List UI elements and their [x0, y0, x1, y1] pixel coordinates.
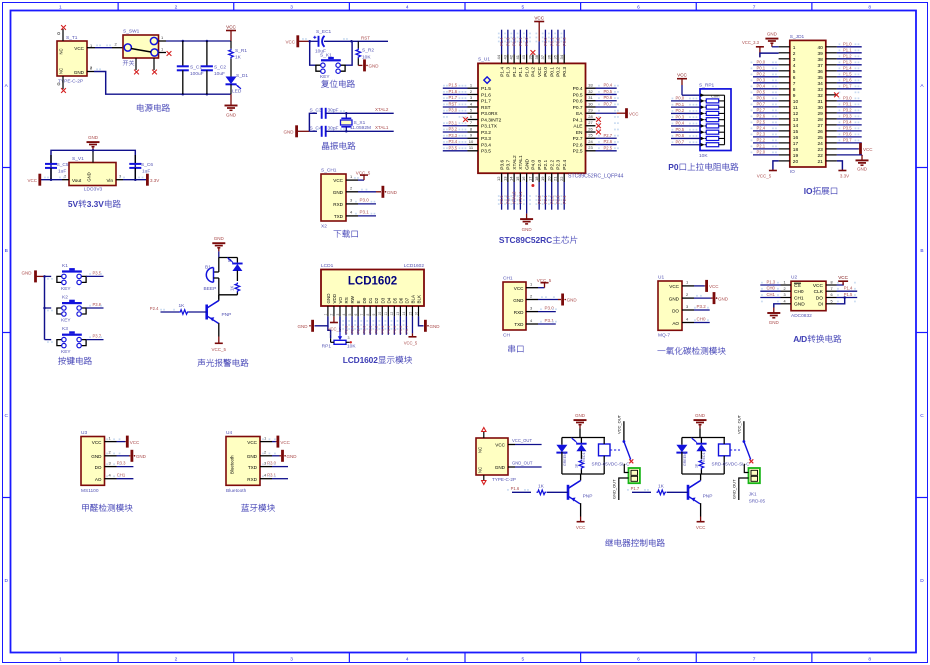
svg-text:PNP: PNP [583, 494, 593, 500]
svg-text:P3.1TX: P3.1TX [481, 124, 498, 130]
IC S_U1 STC89C52RC LQFP44 [468, 54, 624, 182]
svg-text:P1.6: P1.6 [449, 89, 458, 94]
wire P3.5 net [86, 270, 103, 276]
svg-text:18: 18 [793, 147, 799, 153]
svg-text:GREEN1: GREEN1 [563, 451, 567, 466]
svg-text:25: 25 [817, 135, 823, 141]
svg-text:TXD: TXD [334, 214, 344, 219]
caption 继电器控制电路 [605, 539, 664, 547]
svg-text:P2.7: P2.7 [573, 136, 583, 142]
svg-text:D: D [920, 578, 924, 584]
svg-text:2: 2 [793, 51, 796, 57]
svg-text:GND: GND [333, 190, 344, 195]
svg-text:Bluetooth: Bluetooth [226, 488, 247, 494]
svg-text:P2.5: P2.5 [757, 120, 766, 125]
svg-text:P3.0: P3.0 [843, 96, 852, 101]
power port VCC at EA pin [617, 108, 640, 118]
svg-text:XTAL1: XTAL1 [375, 125, 389, 130]
svg-text:CLK: CLK [814, 289, 824, 295]
svg-text:38: 38 [817, 57, 823, 63]
wire relay top rail P1.7 [682, 428, 725, 437]
svg-text:GND: GND [88, 135, 99, 140]
svg-text:VCC: VCC [495, 443, 505, 448]
wire DO P3.2 [694, 304, 710, 310]
svg-text:P0.3: P0.3 [757, 78, 766, 83]
svg-text:7: 7 [793, 81, 796, 87]
LED D2 alarm [227, 258, 243, 282]
svg-text:VCC: VCC [709, 284, 719, 289]
svg-text:EN: EN [576, 130, 583, 136]
button K3 KEY [45, 326, 87, 355]
svg-text:RST: RST [449, 101, 458, 106]
svg-text:9: 9 [372, 314, 376, 316]
svg-text:6: 6 [793, 75, 796, 81]
svg-text:GND: GND [326, 293, 331, 304]
svg-text:10uF: 10uF [214, 71, 225, 77]
svg-text:5V: 5V [68, 199, 79, 209]
wire crystal left vertical [309, 113, 317, 131]
svg-text:S_EC1: S_EC1 [316, 29, 332, 35]
ground GND Bluetooth [272, 450, 297, 462]
svg-text:P0.7: P0.7 [757, 102, 766, 107]
wire LCD VO to wiper [339, 316, 341, 332]
svg-text:P0.6: P0.6 [676, 133, 685, 138]
svg-text:14: 14 [509, 176, 514, 181]
svg-text:3: 3 [783, 293, 785, 297]
capacitor S_EC1 10uF electrolytic [310, 29, 352, 55]
svg-text:P1.5: P1.5 [449, 83, 458, 88]
svg-text:4: 4 [793, 63, 796, 69]
svg-text:P3.0: P3.0 [449, 108, 458, 113]
caption 声光报警电路 [198, 359, 249, 367]
wire GND download [358, 186, 398, 198]
svg-text:D4: D4 [386, 297, 391, 303]
svg-text:12: 12 [793, 111, 799, 117]
svg-text:34: 34 [559, 54, 564, 59]
wire P3.6 net [86, 302, 103, 308]
svg-text:23: 23 [817, 147, 823, 153]
svg-text:8: 8 [793, 87, 796, 93]
svg-text:U3: U3 [81, 430, 87, 436]
svg-text:22: 22 [559, 176, 564, 181]
svg-text:P1.2: P1.2 [512, 67, 518, 77]
svg-text:P2.3: P2.3 [556, 159, 562, 169]
svg-text:VCC_5: VCC_5 [404, 340, 418, 345]
svg-text:P0.4: P0.4 [604, 83, 613, 88]
svg-text:P1.0: P1.0 [524, 67, 530, 77]
svg-text:RW: RW [350, 295, 355, 303]
svg-text:34: 34 [817, 81, 823, 87]
LED S_D1 [226, 59, 249, 95]
svg-text:P3.5: P3.5 [843, 126, 852, 131]
svg-text:P2.7: P2.7 [757, 108, 766, 113]
svg-text:IO: IO [804, 186, 813, 196]
svg-text:P3.4: P3.4 [449, 139, 458, 144]
svg-text:4: 4 [406, 5, 409, 11]
wire alarm bottom node [219, 295, 238, 300]
svg-text:B: B [5, 248, 8, 254]
svg-text:ALE: ALE [573, 124, 582, 130]
svg-text:P1.7: P1.7 [843, 84, 852, 89]
wire DO P1.5 and DI join [837, 292, 858, 304]
svg-text:VCC: VCC [838, 275, 848, 280]
svg-text:VCC: VCC [537, 66, 543, 77]
svg-text:10K: 10K [347, 344, 356, 350]
svg-text:1K: 1K [179, 303, 186, 309]
svg-text:Vin: Vin [106, 178, 113, 183]
relay coil K P1.6 [592, 438, 631, 475]
svg-text:KEY: KEY [61, 318, 71, 324]
svg-text:P1.5: P1.5 [481, 86, 491, 92]
svg-text:13: 13 [793, 117, 799, 123]
svg-text:VCC: VCC [677, 73, 687, 78]
ground GND chip bottom [526, 214, 528, 220]
svg-text:CH0: CH0 [697, 316, 706, 321]
svg-text:E: E [356, 300, 361, 303]
svg-text:1K: 1K [658, 483, 665, 489]
power port VCC_5 LCD VDD [328, 316, 342, 331]
svg-text:P0.2: P0.2 [375, 326, 379, 334]
svg-text:8: 8 [366, 314, 370, 316]
svg-text:2: 2 [175, 657, 178, 663]
svg-text:P4.3INT2: P4.3INT2 [481, 117, 502, 123]
svg-text:40: 40 [521, 54, 526, 59]
connector S_JD1 IO [779, 34, 837, 175]
svg-text:P0.6: P0.6 [399, 326, 403, 334]
svg-text:1: 1 [59, 657, 62, 663]
svg-text:P1.4: P1.4 [844, 286, 853, 291]
svg-text:P0.5: P0.5 [757, 90, 766, 95]
wire XTAL1 net [346, 125, 393, 131]
svg-text:P3.1: P3.1 [449, 120, 458, 125]
svg-text:P2.6: P2.6 [604, 139, 613, 144]
svg-text:ADC0832: ADC0832 [791, 313, 812, 319]
wire RXD P3.1 bt [267, 473, 288, 479]
svg-text:5: 5 [521, 657, 524, 663]
svg-text:S_RP1: S_RP1 [699, 82, 715, 88]
caption 串口 [508, 345, 523, 353]
svg-text:DO: DO [816, 295, 823, 301]
svg-text:P0.3: P0.3 [676, 114, 685, 119]
LED green relay P1.6 [556, 438, 567, 475]
transistor Q1 PNP alarm [207, 295, 232, 337]
resistor base 1K relay P1.7 [631, 483, 688, 494]
wire T1 VCC to switch [87, 42, 125, 48]
ground GND MQ7 [694, 292, 729, 304]
svg-text:2: 2 [783, 287, 785, 291]
svg-text:P2.1: P2.1 [543, 159, 549, 169]
svg-text:P1.4: P1.4 [499, 37, 504, 46]
wire pin21 to 3.3V [837, 161, 849, 179]
resistor base 1K alarm [150, 303, 207, 315]
svg-text:P1.2: P1.2 [512, 37, 517, 46]
LED red relay P1.6 [571, 438, 586, 463]
svg-text:RST: RST [481, 105, 491, 111]
svg-text:P3.7: P3.7 [843, 138, 852, 143]
svg-text:NC: NC [478, 447, 483, 453]
svg-text:P3.2: P3.2 [697, 304, 707, 309]
power port VCC ADC [837, 275, 849, 285]
capacitor S_C5 1uF [45, 150, 69, 179]
svg-text:P3.4: P3.4 [843, 120, 852, 125]
svg-text:P2.1: P2.1 [757, 144, 766, 149]
svg-text:VCC: VCC [696, 525, 706, 530]
svg-text:6: 6 [830, 293, 832, 297]
svg-text:4: 4 [783, 299, 785, 303]
svg-text:P0.1: P0.1 [676, 102, 685, 107]
svg-text:VCC_OUT: VCC_OUT [736, 414, 741, 434]
svg-text:K2: K2 [62, 295, 68, 301]
svg-text:D6: D6 [398, 297, 403, 303]
svg-text:11: 11 [384, 312, 388, 316]
crystal S_X1 11.0592M [341, 112, 371, 133]
svg-text:GND: GND [524, 159, 530, 170]
svg-text:VCC: VCC [130, 440, 140, 445]
ground GND power [225, 94, 238, 117]
svg-text:P0.2: P0.2 [757, 72, 766, 77]
svg-text:21: 21 [553, 176, 558, 181]
svg-text:VCC_5: VCC_5 [537, 278, 552, 283]
svg-text:STC89C52RC_LQFP44: STC89C52RC_LQFP44 [568, 174, 623, 180]
svg-text:D7: D7 [404, 297, 409, 303]
svg-text:P1.0: P1.0 [843, 42, 852, 47]
svg-text:42: 42 [509, 54, 514, 59]
svg-text:7: 7 [360, 314, 364, 316]
svg-text:D3: D3 [380, 297, 385, 303]
svg-text:GND_OUT: GND_OUT [512, 461, 533, 466]
svg-text:VCC: VCC [226, 24, 236, 29]
capacitor S_C4 30pF [309, 125, 346, 137]
power port VCC relay P1.6 [576, 517, 586, 531]
svg-text:15: 15 [515, 176, 520, 181]
svg-text:D: D [4, 578, 8, 584]
svg-text:LCD1: LCD1 [321, 263, 334, 269]
svg-text:P1.4: P1.4 [843, 66, 852, 71]
svg-text:P2.4: P2.4 [150, 306, 159, 311]
svg-text:LCD1602: LCD1602 [348, 276, 397, 288]
svg-text:P3.3: P3.3 [481, 136, 491, 142]
svg-text:S_R1: S_R1 [235, 48, 247, 54]
svg-text:2: 2 [175, 5, 178, 11]
svg-text:P0.4: P0.4 [676, 121, 685, 126]
relay coil K P1.7 [712, 438, 751, 475]
svg-text:30: 30 [817, 105, 823, 111]
svg-text:AO: AO [672, 321, 679, 326]
svg-text:P1.7: P1.7 [481, 99, 491, 105]
svg-text:P0.6: P0.6 [757, 96, 766, 101]
svg-text:28: 28 [817, 117, 823, 123]
svg-text:P3.0RX: P3.0RX [481, 111, 498, 117]
svg-text:GND: GND [22, 271, 33, 276]
svg-text:6: 6 [637, 5, 640, 11]
svg-text:VCC_5: VCC_5 [757, 174, 772, 179]
svg-text:TXD: TXD [514, 322, 524, 327]
svg-text:5: 5 [521, 5, 524, 11]
svg-text:7: 7 [753, 5, 756, 11]
svg-text:BLA: BLA [410, 295, 415, 304]
svg-text:26: 26 [817, 129, 823, 135]
svg-text:CH1: CH1 [117, 473, 126, 478]
svg-text:P1.4: P1.4 [499, 67, 505, 77]
svg-text:27: 27 [817, 123, 823, 129]
svg-text:GND: GND [214, 236, 225, 241]
svg-text:K1: K1 [62, 263, 68, 269]
caption 电源电路 [137, 104, 170, 112]
svg-text:30: 30 [588, 101, 593, 106]
svg-text:GND: GND [767, 31, 778, 36]
svg-text:GND: GND [575, 413, 586, 418]
svg-text:P0.0: P0.0 [543, 67, 549, 77]
svg-text:VCC_3.3: VCC_3.3 [742, 40, 760, 45]
wires P0 net labels pullup [671, 96, 700, 145]
svg-text:40: 40 [817, 45, 823, 51]
svg-text:VCC_5: VCC_5 [356, 171, 371, 176]
wire alarm top node [219, 251, 238, 257]
svg-text:S_C5: S_C5 [57, 162, 69, 168]
svg-text:16: 16 [793, 135, 799, 141]
svg-text:P0.5: P0.5 [393, 326, 397, 334]
svg-text:23: 23 [588, 145, 593, 150]
capacitor S_C6 1uF [129, 155, 153, 180]
svg-text:17: 17 [793, 141, 799, 147]
svg-text:P3.2: P3.2 [843, 108, 852, 113]
svg-text:B: B [920, 248, 923, 254]
power port VCC left [27, 174, 40, 186]
power port VCC JD1 pin23 [837, 143, 873, 155]
svg-text:P2.3: P2.3 [757, 132, 766, 137]
wire GND bus buttons [43, 275, 46, 339]
svg-text:P2.2: P2.2 [549, 195, 554, 204]
IC U2 ADC0832 [781, 275, 837, 319]
svg-text:33: 33 [588, 83, 593, 88]
svg-text:P0.7: P0.7 [405, 326, 409, 334]
svg-text:3: 3 [793, 57, 796, 63]
svg-text:P1.5: P1.5 [843, 72, 852, 77]
svg-text:P0.4: P0.4 [757, 84, 766, 89]
svg-text:GND: GND [369, 64, 380, 69]
wires top pins nets [499, 30, 567, 55]
svg-text:13: 13 [502, 176, 507, 181]
svg-text:P1.3: P1.3 [506, 67, 512, 77]
svg-text:P2.0: P2.0 [537, 195, 542, 204]
svg-text:MS1100: MS1100 [81, 488, 99, 494]
power port VCC_3.3 JD1 [742, 40, 779, 57]
svg-text:GND: GND [387, 190, 398, 195]
svg-text:GND: GND [669, 296, 680, 301]
wire relay bottom rail P1.7 [682, 474, 724, 481]
svg-text:1: 1 [330, 332, 332, 336]
svg-text:CH1: CH1 [767, 292, 776, 297]
svg-text:12: 12 [390, 312, 394, 316]
svg-text:S_C4: S_C4 [310, 125, 322, 131]
wires LCD data nets [345, 316, 409, 334]
svg-text:P2.4: P2.4 [757, 126, 766, 131]
relay switch contact P1.6 [616, 414, 633, 463]
grid artifacts [44, 33, 859, 491]
svg-text:37: 37 [817, 63, 823, 69]
svg-text:GND: GND [247, 454, 258, 459]
svg-text:P1.7: P1.7 [631, 486, 640, 491]
svg-text:RED1: RED1 [702, 452, 706, 462]
svg-text:P3.5: P3.5 [449, 145, 458, 150]
power port VCC_5 serial [537, 278, 552, 288]
svg-text:P1.6: P1.6 [511, 486, 520, 491]
resistor S_R2 10K [356, 41, 374, 65]
wire GND serial [538, 294, 577, 306]
svg-text:XTAL1: XTAL1 [518, 191, 523, 204]
svg-text:CH0: CH0 [767, 286, 776, 291]
svg-text:P0: P0 [668, 162, 679, 172]
svg-text:32: 32 [588, 89, 593, 94]
sensor U1 MQ-7 [658, 275, 694, 339]
svg-text:26: 26 [588, 126, 593, 131]
svg-text:11: 11 [793, 105, 798, 111]
svg-text:S_K1: S_K1 [320, 52, 332, 58]
svg-text:P3.1: P3.1 [843, 102, 852, 107]
caption 复位电路 [321, 80, 355, 88]
svg-text:GND: GND [567, 298, 578, 303]
svg-text:P1.0: P1.0 [524, 37, 529, 46]
connector output screw P1.6 [611, 464, 640, 500]
wires left pins nets [443, 83, 468, 151]
resistor base 1K relay P1.6 [511, 483, 568, 494]
caption 甲醛检测模块 [82, 504, 132, 512]
power port VCC pullup [677, 73, 700, 96]
svg-text:VO: VO [338, 296, 343, 303]
svg-text:1K: 1K [695, 463, 699, 468]
wires JD1 left net labels [753, 60, 779, 155]
svg-text:9: 9 [793, 93, 796, 99]
svg-text:S_R2: S_R2 [362, 48, 374, 54]
svg-text:2: 2 [330, 314, 334, 316]
resistor relay 1K P1.7 [695, 460, 704, 475]
svg-text:P3.4: P3.4 [481, 142, 491, 148]
caption P0口上拉电阻电路 [668, 162, 738, 172]
wire GND bottom rail [87, 65, 231, 95]
svg-text:VCC: VCC [280, 440, 290, 445]
svg-text:P2.5: P2.5 [604, 145, 613, 150]
svg-text:RXD: RXD [247, 477, 257, 482]
svg-text:3.3V: 3.3V [840, 174, 849, 179]
svg-text:U2: U2 [791, 275, 797, 281]
svg-text:Com: Com [711, 93, 720, 98]
svg-text:8: 8 [868, 657, 871, 663]
connector CH1 serial [503, 276, 538, 339]
svg-text:GND: GND [136, 454, 147, 459]
svg-text:RS: RS [344, 297, 349, 303]
resistor S_R1 1K [229, 41, 248, 61]
svg-text:VCC: VCC [285, 40, 295, 45]
svg-text:P1.5: P1.5 [844, 292, 853, 297]
wire CLK P1.4 [837, 286, 858, 292]
svg-text:19: 19 [540, 176, 545, 181]
svg-text:C: C [920, 413, 924, 419]
svg-text:P1.3: P1.3 [505, 37, 510, 46]
svg-text:43: 43 [502, 54, 507, 59]
svg-text:S_CH1: S_CH1 [321, 168, 337, 174]
wire Vin to 3.3V [116, 174, 147, 180]
svg-text:5: 5 [793, 69, 796, 75]
svg-text:RP1: RP1 [322, 344, 332, 350]
buzzer B1 BEEP [204, 258, 219, 295]
svg-text:LED: LED [232, 89, 242, 95]
regulator S_V1 LDO3V3 [69, 150, 116, 192]
svg-text:P3.7: P3.7 [506, 159, 512, 169]
svg-text:1: 1 [59, 5, 62, 11]
svg-text:STC89C52RC: STC89C52RC [499, 235, 552, 245]
ground GND bar LCD left [298, 320, 313, 332]
svg-text:GND: GND [794, 302, 805, 308]
